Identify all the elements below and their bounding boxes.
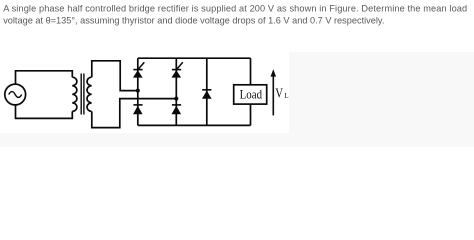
thyristor T2 [172,62,183,77]
wire: secondary bottom loop to node B [92,99,177,128]
wire: branch 3 vertical [206,58,208,125]
VL arrow [271,69,277,115]
wire: source bottom to primary bottom [16,105,73,119]
node A junction dot [136,89,140,93]
white circuit image background [0,52,289,133]
svg-text:A single phase half controlled: A single phase half controlled bridge re… [3,4,467,14]
transformer secondary coil L2 [87,77,92,111]
wire: load branch bottom [250,104,252,125]
svg-text:V: V [275,85,283,100]
transformer primary coil L1 [72,77,77,111]
grey panel under circuit area [0,52,474,147]
page background [0,0,474,147]
wire: bridge bottom rail [138,124,251,126]
wire: branch 2 vertical [175,58,177,125]
node B junction dot [174,97,178,101]
svg-text:voltage at θ=135°, assuming th: voltage at θ=135°, assuming thyristor an… [3,16,384,26]
load box [234,85,267,104]
diode D2 [172,105,182,114]
transformer core line 2 [83,74,85,115]
wire: bridge top rail [138,57,251,59]
ac source V1 circle [5,84,26,105]
diode D1 [133,105,143,114]
ac source sine symbol [9,92,22,98]
svg-text:Load: Load [240,87,262,102]
wire: secondary top loop to node A [92,61,138,91]
svg-text:L: L [284,92,288,100]
wire: branch 1 vertical [137,58,139,125]
wire: source top to primary top [16,71,73,84]
transformer core line 1 [80,74,82,115]
wire: load branch top [250,58,252,85]
thyristor T1 [133,62,144,77]
freewheeling diode D3 [202,90,212,99]
